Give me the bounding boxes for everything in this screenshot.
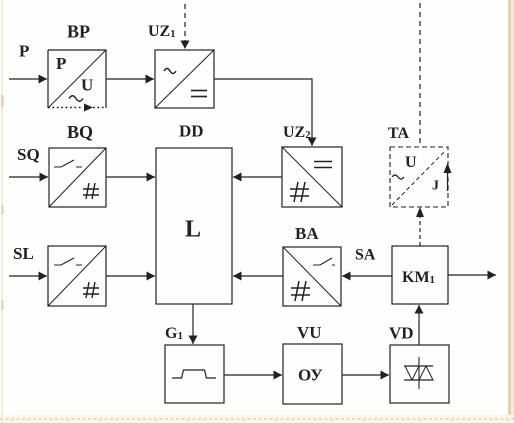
wire KM1 output [448, 274, 496, 276]
svg-text:BA: BA [295, 224, 319, 243]
wire dashed from top to TA [419, 3, 421, 147]
svg-text:SA: SA [355, 247, 376, 264]
BP bottom dashed arrow [48, 104, 106, 112]
svg-text:J: J [432, 179, 439, 194]
wire BP to UZ1 [106, 78, 154, 80]
wire P input arrow [9, 78, 47, 80]
wire BQ to DD [106, 176, 155, 178]
block DD (logic controller L) [156, 148, 232, 304]
wire G1 to VU [224, 374, 282, 376]
block TA label [388, 125, 409, 142]
block BA label [295, 224, 319, 243]
svg-text:U: U [81, 76, 93, 95]
block G1 (pulse generator) [165, 345, 224, 403]
block UZ1 (AC/DC rectifier) [155, 50, 214, 108]
wire BA to DD [233, 275, 283, 277]
block VU (amplifier OY) [283, 344, 342, 404]
scan border left [1, 0, 4, 423]
wire DD to G1 [192, 304, 194, 344]
block KM1 (contactor) [392, 246, 448, 304]
svg-text:VD: VD [389, 324, 414, 343]
wire KM1 to BA (SA) [342, 275, 392, 277]
svg-text:P: P [56, 54, 66, 73]
node SA label [355, 247, 376, 264]
block UZ1 label [148, 23, 175, 40]
wire VD to KM1 [418, 305, 420, 345]
block BP (P/U transducer) [48, 50, 106, 108]
block SL converter (switch to code) [48, 246, 106, 306]
block BA (feedback converter) [283, 247, 341, 306]
block G1 label [165, 325, 183, 342]
block VD (triac) [390, 345, 449, 403]
wire SQ input arrow [9, 176, 48, 178]
svg-text:U: U [405, 154, 417, 171]
svg-text:TA: TA [388, 125, 409, 142]
node SQ label [17, 145, 40, 164]
block UZ2 label [283, 124, 310, 141]
wire SL input arrow [9, 275, 47, 277]
wire SL box to DD [106, 275, 155, 277]
svg-text:P: P [19, 42, 29, 61]
block BQ (switch to code converter) [49, 148, 106, 207]
svg-text:BP: BP [67, 22, 90, 42]
block VD label [389, 324, 414, 343]
block DD label [179, 122, 204, 141]
wire dashed into UZ1 top [184, 4, 186, 49]
wire UZ2 to DD [233, 176, 282, 178]
svg-text:DD: DD [179, 122, 204, 141]
wire UZ1 to UZ2 [214, 79, 312, 146]
block VU label [297, 323, 322, 342]
scan border right [508, 0, 514, 423]
wire dashed TA to KM1 with up arrow [416, 207, 424, 246]
scan border bottom [0, 415, 514, 423]
block TA (current transformer, dashed) [390, 147, 452, 207]
node SL label [13, 244, 34, 263]
node P label [19, 42, 29, 61]
svg-text:BQ: BQ [67, 122, 93, 142]
svg-text:ОУ: ОУ [298, 366, 323, 385]
svg-text:SL: SL [13, 244, 34, 263]
block BQ label [67, 122, 93, 142]
wire VU to VD [342, 374, 389, 376]
svg-text:VU: VU [297, 323, 322, 342]
block BP label [67, 22, 90, 42]
block UZ2 (DC converter) [282, 147, 342, 207]
svg-text:SQ: SQ [17, 145, 40, 164]
svg-text:L: L [185, 217, 201, 243]
